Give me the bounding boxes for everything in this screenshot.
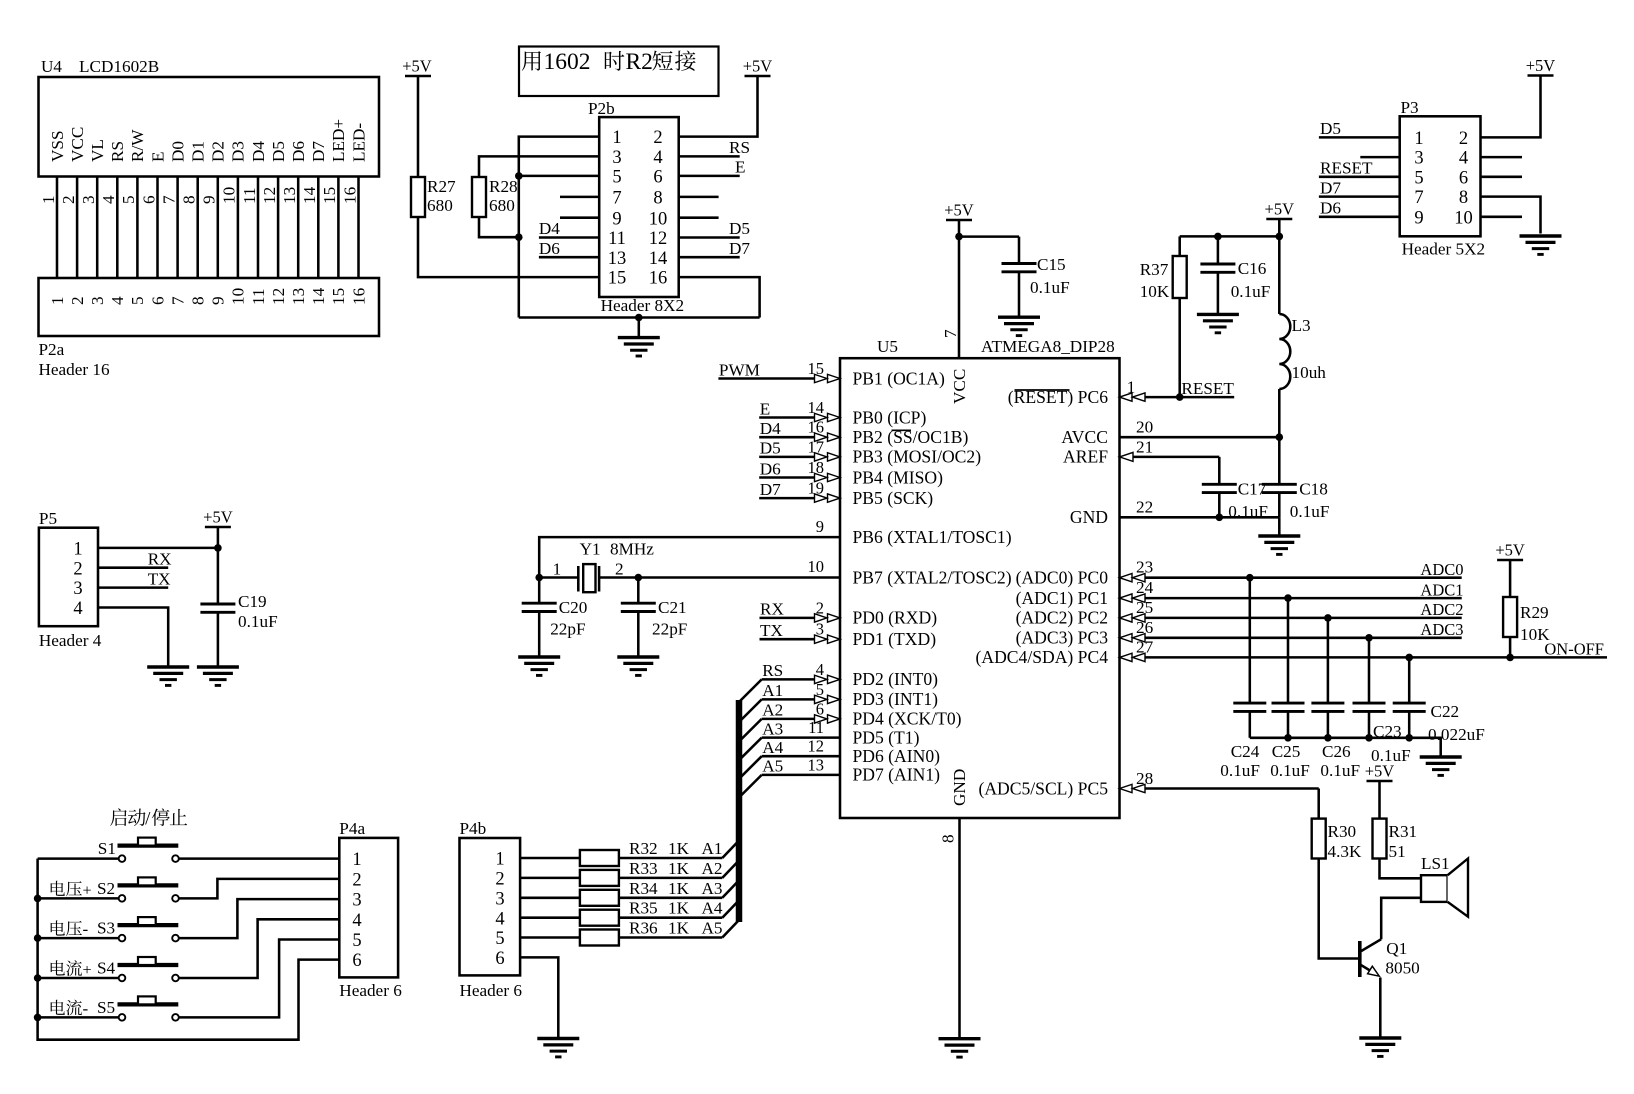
svg-text:2: 2 [1459,129,1468,149]
wire U5 pin22 GND [1120,498,1280,518]
svg-text:U5: U5 [877,337,898,356]
svg-text:C18: C18 [1299,480,1328,499]
U4 pin number 14 [300,186,319,204]
svg-text:22: 22 [1136,498,1153,517]
P4b pin number 1 [495,850,504,870]
svg-text:+5V: +5V [1365,762,1395,781]
junction [635,574,643,582]
svg-text:0.1uF: 0.1uF [1320,761,1360,780]
wire P3 pin9 (D6) [1319,199,1400,218]
P2a pin number 4 [108,296,127,305]
pushbutton S5 [38,996,198,1020]
wire net A2 to U5 pin6 [762,699,840,723]
svg-text:S5: S5 [97,998,115,1017]
U5 pin name PD3 (INT1) [853,689,939,709]
junction [1276,233,1284,241]
svg-text:12: 12 [269,288,288,305]
svg-text:VCC: VCC [68,127,87,162]
wire net PWM to U5 pin15 [718,359,840,383]
svg-text:1: 1 [39,195,58,204]
resistor R36 1K [580,919,723,946]
junction [1365,634,1373,642]
svg-text:C17: C17 [1238,480,1267,499]
bus entry diagonal [739,775,762,798]
junction [955,233,963,241]
U4 pin number 4 [99,195,118,204]
wire U5 pin20 AVCC [1120,418,1280,438]
svg-text:1: 1 [352,850,361,870]
wire net RX to U5 pin2 [760,598,841,622]
wire C20 top [538,578,541,604]
wire C25 bottom [1287,711,1290,737]
wire U5 pin1 RESET net [1120,378,1235,402]
wire C15 top [1018,237,1021,264]
svg-text:3: 3 [352,891,361,911]
svg-text:A4: A4 [762,738,783,757]
U4 pin number 11 [240,187,259,204]
svg-text:PB4 (MISO): PB4 (MISO) [853,467,944,487]
svg-text:1: 1 [48,296,67,305]
svg-text:3: 3 [816,620,824,639]
svg-text:5: 5 [816,680,824,699]
wire U4 pin 6 to P2a [156,177,159,279]
wire U5 pin9 to crystal [539,517,840,578]
svg-text:13: 13 [289,288,308,305]
svg-text:1K: 1K [668,899,690,918]
wire C21 to ground [637,612,640,658]
wire P2b pin9 stub [560,216,599,219]
svg-text:RESET: RESET [1320,159,1373,178]
svg-text:R30: R30 [1328,822,1357,841]
svg-text:D7: D7 [729,239,750,258]
svg-text:0.1uF: 0.1uF [1290,502,1330,521]
pushbutton S4 [38,957,198,981]
svg-text:18: 18 [808,458,825,477]
svg-text:0.1uF: 0.1uF [238,612,278,631]
svg-text:ON-OFF: ON-OFF [1544,640,1604,659]
svg-text:1K: 1K [668,879,690,898]
svg-text:C19: C19 [238,592,267,611]
svg-text:5: 5 [612,168,621,188]
svg-text:RS: RS [729,138,750,157]
ground (P5 pin4) [147,667,189,685]
svg-text:6: 6 [1459,168,1468,188]
svg-text:8: 8 [939,834,958,843]
ground (P2b) [618,338,660,356]
wire P4b to R32 [520,857,580,860]
P5 pin number 2 [73,559,82,579]
junction [1324,734,1332,742]
svg-text:PD1 (TXD): PD1 (TXD) [853,629,937,649]
resistor R32 1K [580,839,723,866]
svg-text:6: 6 [816,699,824,718]
wire P3 pin2 to +5V [1481,76,1541,138]
svg-text:12: 12 [649,229,668,249]
wire P2b pin4 (RS) [679,138,750,157]
svg-text:PB6 (XTAL1/TOSC1): PB6 (XTAL1/TOSC1) [853,527,1012,547]
U5 pin name PD4 (XCK/T0) [853,709,962,729]
P2a pin number 10 [229,288,248,305]
svg-text:8: 8 [189,296,208,305]
wire U4 pin 11 to P2a [257,177,260,279]
connector P3 Header 5X2 [1400,98,1485,259]
resistor R27 [411,177,456,217]
wire S3 to P4a pin3 [198,899,339,938]
junction [1216,514,1224,522]
wire U4 pin 1 to P2a [56,177,59,279]
U4 pin number 3 [79,195,98,204]
svg-text:P4a: P4a [339,819,365,838]
svg-text:VL: VL [88,139,107,162]
P2b pin number 11 [608,229,626,249]
U4 pin label VCC [68,127,87,162]
wire crystal left node [539,576,578,579]
svg-text:(ADC5/SCL) PC5: (ADC5/SCL) PC5 [978,778,1108,798]
bus entry diagonal [739,756,762,779]
+5V symbol (P5) [203,508,233,528]
svg-text:14: 14 [309,287,328,305]
svg-text:D6: D6 [289,141,308,162]
svg-text:15: 15 [320,187,339,204]
wire P3 pin4 stub [1481,156,1523,159]
U4 pin label D5 [269,141,288,162]
wire button common rail [38,859,340,1040]
wire +5V down to L3 [1278,219,1281,314]
svg-text:R29: R29 [1520,603,1549,622]
svg-text:C16: C16 [1238,259,1267,278]
junction [34,1014,42,1022]
wire P4b to R33 [520,877,580,880]
svg-text:4: 4 [495,909,504,929]
svg-text:6: 6 [139,195,158,204]
wire C21 top [637,578,640,604]
wire net ADC0 U5 pin23 [1120,558,1464,582]
P2b pin number 14 [649,249,668,269]
svg-text:C25: C25 [1272,742,1301,761]
svg-text:D6: D6 [1320,199,1341,218]
U4 pin number 7 [159,195,178,204]
svg-text:+5V: +5V [1265,200,1295,219]
svg-text:A3: A3 [762,719,783,738]
wire C26 top [1327,618,1330,703]
P3 pin number 4 [1459,149,1468,169]
svg-text:23: 23 [1136,558,1153,577]
U4 pin number 5 [119,195,138,204]
svg-text:PWM: PWM [719,360,760,379]
svg-text:2: 2 [615,559,624,578]
U4 pin number 15 [320,187,339,204]
svg-text:51: 51 [1389,842,1406,861]
svg-text:11: 11 [240,187,259,204]
wire L3 to AVCC [1278,389,1281,437]
resistor R37 [1140,256,1187,301]
connector P4b Header 6 [460,819,523,1000]
U5 pin name PB2 (SS/OC1B) [853,427,969,447]
junction [535,574,543,582]
wire C23 top [1368,638,1371,703]
U4 pin label D0 [168,141,187,162]
svg-text:U4: U4 [41,57,62,76]
pushbutton S1 [38,838,198,862]
svg-text:C21: C21 [658,598,687,617]
svg-text:PD0 (RXD): PD0 (RXD) [853,608,938,628]
U4 pin label LED+ [329,119,348,162]
svg-text:1K: 1K [668,859,690,878]
junction [1506,654,1514,662]
svg-text:ADC1: ADC1 [1420,580,1463,599]
P4a pin number 3 [352,891,361,911]
note box: use 1602 short R2 [519,47,719,97]
wire C22 top [1408,657,1411,703]
P2b pin number 16 [649,269,668,289]
U5 pin name PD5 (T1) [853,727,920,747]
resistor R33 1K [580,859,723,886]
capacitor C18 [1262,480,1330,522]
P2b pin number 3 [612,148,621,168]
P3 pin number 10 [1454,208,1473,228]
svg-text:LCD1602B: LCD1602B [79,57,159,76]
capacitor C22 label [1428,702,1485,744]
wire net ADC2 U5 pin25 [1120,598,1464,622]
svg-text:R31: R31 [1389,822,1418,841]
U5 pin name (ADC2) PC2 [1016,608,1108,628]
svg-text:1: 1 [495,850,504,870]
+5V symbol (reset rail) [1265,200,1295,220]
U4 pin label LED- [349,123,368,162]
svg-text:Header 8X2: Header 8X2 [601,296,685,315]
P2b pin number 10 [649,209,668,229]
svg-text:R28: R28 [489,177,518,196]
svg-text:PB0 (ICP): PB0 (ICP) [853,407,927,427]
wire C17 to GND net [1218,493,1221,518]
U5 pin name (ADC1) PC1 [1016,588,1108,608]
svg-text:ADC3: ADC3 [1420,620,1463,639]
svg-text:GND: GND [950,769,969,806]
wire C23 bottom [1368,711,1371,737]
P2b pin number 2 [653,128,662,148]
P2a pin number 16 [349,287,368,305]
wire net D6 to U5 pin18 [759,458,840,482]
P2a pin number 5 [128,296,147,305]
junction [1284,734,1292,742]
junction [1176,393,1184,401]
svg-text:PD2 (INT0): PD2 (INT0) [853,669,939,689]
junction [1276,433,1284,441]
svg-text:Header 4: Header 4 [39,631,102,650]
U5 pin name (ADC5/SCL) PC5 [978,778,1108,798]
wire P2b pin16 to gnd rail [679,277,760,317]
svg-text:1: 1 [73,540,82,560]
junction [214,544,222,552]
svg-text:15: 15 [329,288,348,305]
wire C26 bottom [1327,711,1330,737]
wire +5V stub [217,527,220,548]
U5 pin name PB1 (OC1A) [853,368,946,388]
svg-text:TX: TX [148,569,171,588]
wire net RS to U5 pin4 [762,660,840,684]
svg-text:A2: A2 [762,701,783,720]
svg-text:TX: TX [760,621,783,640]
svg-text:3: 3 [79,195,98,204]
wire P3 pin1 (D5) [1319,119,1400,138]
svg-text:E: E [760,399,771,418]
wire net E to U5 pin14 [759,398,840,422]
wire P2b pin7 stub [560,196,599,199]
svg-text:D7: D7 [309,141,328,162]
P3 pin number 5 [1414,168,1423,188]
svg-text:10K: 10K [1520,625,1550,644]
U4 pin label D1 [189,141,208,162]
wire R27 to P2b pin15 [418,217,599,277]
wire P3 pin6 stub [1481,176,1523,179]
svg-text:(ADC0) PC0: (ADC0) PC0 [1016,568,1109,588]
wire net A5 to U5 pin13 [762,755,840,775]
svg-text:C24: C24 [1231,742,1260,761]
svg-text:+: + [83,962,92,979]
svg-text:+5V: +5V [1526,56,1556,75]
wire C24 top [1249,578,1252,703]
svg-text:21: 21 [1136,437,1153,456]
svg-text:14: 14 [808,398,825,417]
svg-text:RX: RX [760,600,784,619]
ground (U5 pin8) [939,1039,981,1057]
svg-text:3: 3 [612,148,621,168]
wire P2b pin3 to R28 [479,156,599,177]
ground (caps rail) [1420,757,1462,775]
svg-text:R32: R32 [629,839,658,858]
svg-text:R37: R37 [1140,260,1169,279]
bus entry diagonal [739,719,762,742]
svg-text:9: 9 [612,209,621,229]
svg-text:PD4 (XCK/T0): PD4 (XCK/T0) [853,709,962,729]
capacitor C19 [200,592,277,631]
U5 pin name (ADC3) PC3 [1016,628,1109,648]
svg-text:5: 5 [128,296,147,305]
capacitor C26 label [1320,742,1360,780]
svg-text:A3: A3 [702,879,723,898]
connector P5 Header 4 [39,509,102,650]
P4b pin number 2 [495,870,504,890]
wire U4 pin 14 to P2a [317,177,320,279]
wire U5 pin28 to R30 [1120,769,1319,819]
+5V symbol (R31) [1365,762,1395,782]
transistor Q1 8050 [1360,939,1420,978]
svg-text:6: 6 [148,296,167,305]
pushbutton S3 [38,917,198,941]
resistor R35 1K [580,899,723,926]
wire net A1 to U5 pin5 [762,680,840,704]
svg-text:13: 13 [808,755,825,774]
wire +5V to R29 [1509,560,1512,597]
wire U4 pin 4 to P2a [116,177,119,279]
svg-text:17: 17 [808,437,825,456]
svg-text:C20: C20 [559,598,588,617]
wire net D7 to U5 pin19 [759,479,840,503]
svg-text:D7: D7 [1320,178,1341,197]
svg-text:6: 6 [495,949,504,969]
U4 pin label VL [88,139,107,162]
wire R28 to node [479,217,519,237]
svg-text:(ADC4/SDA) PC4: (ADC4/SDA) PC4 [976,647,1109,667]
svg-text:1602: 1602 [544,49,591,75]
wire +5V to P2b pin2 [679,76,758,137]
junction [1324,614,1332,622]
svg-text:+5V: +5V [203,508,233,527]
svg-text:P2a: P2a [39,340,65,359]
P2a pin number 9 [209,296,228,305]
P4a pin number 6 [352,951,361,971]
U4 pin label R/W [128,129,147,162]
svg-text:11: 11 [808,718,824,737]
U5 pin name PB7 (XTAL2/TOSC2) [853,567,1012,587]
svg-text:15: 15 [608,269,627,289]
svg-text:/: / [145,809,151,830]
capacitor C24 label [1220,742,1260,780]
svg-text:1K: 1K [668,839,690,858]
svg-text:A5: A5 [762,757,783,776]
wire P3 pin3 stub [1360,156,1399,159]
wire P3 pin10 stub [1481,216,1523,219]
wire U5 pin21 AREF [1120,437,1220,461]
wire net A3 to U5 pin11 [762,718,840,738]
U4 pin number 16 [340,186,359,204]
wire U4 pin 3 to P2a [96,177,99,279]
wire net TX to U5 pin3 [760,620,841,644]
wire U4 pin 12 to P2a [277,177,280,279]
P2a pin number 8 [189,296,208,305]
capacitor C23 [1353,703,1386,711]
svg-text:10: 10 [1454,208,1473,228]
svg-text:D4: D4 [249,141,268,162]
U5 pin name PB6 (XTAL1/TOSC1) [853,527,1012,547]
wire C24 bottom [1249,711,1252,737]
svg-text:A1: A1 [762,681,783,700]
svg-text:VSS: VSS [48,130,67,162]
svg-text:Header 16: Header 16 [39,360,111,379]
svg-text:5: 5 [1414,168,1423,188]
svg-text:P3: P3 [1401,98,1419,117]
svg-text:15: 15 [808,359,825,378]
svg-text:4: 4 [653,148,662,168]
svg-text:11: 11 [249,288,268,305]
connector P2b Header 8X2 [588,99,684,315]
wire +5V to R31 [1378,781,1381,819]
U5 pin name (ADC4/SDA) PC4 [976,647,1109,667]
P4a pin number 2 [352,871,361,891]
P2b pin number 5 [612,168,621,188]
svg-text:PB7 (XTAL2/TOSC2): PB7 (XTAL2/TOSC2) [853,567,1012,587]
U4 pin label D3 [229,141,248,162]
wire P2b pin6 (E) [679,158,746,177]
wire C16 to ground [1217,272,1220,314]
svg-text:P4b: P4b [460,819,487,838]
svg-text:AREF: AREF [1063,447,1108,467]
svg-text:1: 1 [612,128,621,148]
inductor L3 10uh [1279,314,1326,389]
U5 pin name AREF [1063,447,1108,467]
U4 pin label D7 [309,141,328,162]
wire R32 to bus [619,841,739,859]
svg-text:VCC: VCC [950,369,969,404]
svg-text:3: 3 [495,889,504,909]
U4 pin label D6 [289,141,308,162]
svg-text:P2b: P2b [588,99,615,118]
svg-text:4: 4 [99,195,118,204]
P2a pin number 13 [289,288,308,305]
wire AREF down to C17 [1218,457,1221,484]
wire U4 pin 5 to P2a [136,177,139,279]
svg-text:8: 8 [653,189,662,209]
